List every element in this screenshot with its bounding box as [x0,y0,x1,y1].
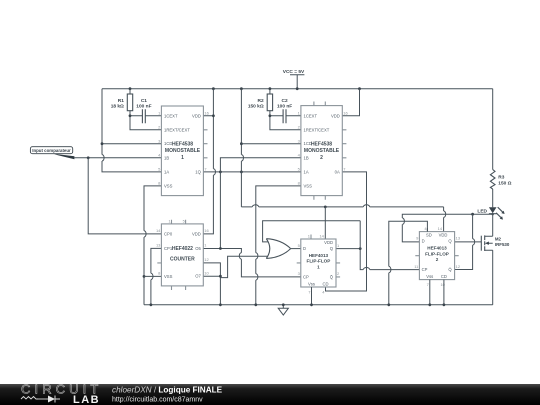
node R1/C1 junction [129,114,132,117]
wire FF2 CD to ground [443,280,445,305]
svg-text:4: 4 [158,153,161,158]
IC U2 HEF4538 MONOSTABLE 2 [298,102,349,200]
svg-text:VDD: VDD [439,233,448,238]
wire Q down to FF2 CP (hops drawn on crossing wires) [360,221,419,270]
svg-text:5: 5 [298,243,301,248]
wire 1CD of U1 to VCC drop [102,143,161,145]
wire FF VDD line (hops up over two verticals) [241,205,443,207]
svg-text:18 kΩ: 18 kΩ [111,104,124,110]
svg-text:3: 3 [298,139,301,144]
wire counter CP1 to ground [151,248,162,304]
svg-text:1: 1 [181,155,184,161]
svg-text:VDD: VDD [324,240,333,245]
svg-text:1: 1 [158,111,161,116]
svg-text:14: 14 [319,234,324,239]
svg-text:M2: M2 [495,236,502,241]
wire FF2 Q to M2 gate [455,241,482,243]
svg-text:1B: 1B [304,155,309,160]
svg-text:12: 12 [456,264,461,269]
svg-text:2: 2 [320,155,323,161]
wire FF1 pin14 stub up to VDD line [324,207,326,239]
wire O7 to OR gate bottom input [221,256,268,277]
svg-text:16: 16 [343,111,348,116]
wire left VCC drop to 1CD/1A (with hop over 1B wire) [102,89,161,172]
svg-text:VSS: VSS [164,183,173,188]
wire FF2 D / VDD node to LED cathode (vertical hops over SD wire) [402,214,492,242]
svg-text:FLIP-FLOP: FLIP-FLOP [425,251,449,256]
diode LED [477,189,504,220]
svg-text:R3: R3 [498,175,504,181]
svg-text:7: 7 [427,282,430,287]
svg-text:100 nF: 100 nF [136,104,151,110]
svg-text:7: 7 [343,167,346,172]
svg-text:D: D [303,246,306,251]
svg-text:IRF530: IRF530 [495,242,510,247]
wire ground rail [144,304,493,306]
svg-text:1REXT/CEXT: 1REXT/CEXT [304,127,330,132]
svg-text:11: 11 [414,264,419,269]
node O7 junction [219,275,222,278]
svg-text:8: 8 [158,181,161,186]
svg-text:3: 3 [298,271,301,276]
svg-text:0A: 0A [335,169,340,174]
wire FF1 Q feedback to OR top input [263,221,361,242]
svg-text:Vss: Vss [308,282,315,287]
svg-text:HEF4013: HEF4013 [309,253,329,258]
node VCC stem junction [296,87,299,90]
wire VDD rail U1 to counter (with hop over 1Q wire) [203,89,215,234]
CircuitLab logo [21,382,102,405]
svg-text:9: 9 [416,236,419,241]
wire LED cathode to M2 drain [492,214,494,237]
svg-text:VCC = 5V: VCC = 5V [283,69,305,75]
svg-text:2: 2 [436,257,439,262]
wire counter pin13 to FF1 CP (hop down past OR input wire) [203,249,300,277]
svg-text:R2: R2 [258,98,264,104]
node D line junctions [471,213,474,216]
IC U3 HEF4022 COUNTER [156,220,210,290]
OR gate U4 [266,239,290,259]
svg-text:150 kΩ: 150 kΩ [248,104,264,110]
svg-text:VDD: VDD [331,113,340,118]
svg-text:CD: CD [441,274,447,279]
transistor M2 IRF530 [481,235,510,251]
node 1CD junction [101,142,104,145]
svg-text:2: 2 [158,125,161,130]
svg-text:1: 1 [298,111,301,116]
footer bar [0,384,540,405]
svg-text:Input comparateur: Input comparateur [32,148,71,153]
svg-text:CP: CP [303,274,309,279]
svg-text:150 Ω: 150 Ω [498,180,511,186]
svg-text:VSS: VSS [164,274,173,279]
svg-text:16: 16 [204,228,209,233]
wire VCC bus [102,88,493,90]
svg-text:HEF4013: HEF4013 [427,246,447,251]
svg-text:chloerDXN / Logique FINALE: chloerDXN / Logique FINALE [112,386,223,395]
wire input down to counter CP0 [88,158,161,234]
svg-text:1REXT/CEXT: 1REXT/CEXT [164,127,190,132]
svg-text:1: 1 [168,220,170,224]
svg-text:1: 1 [204,243,207,248]
resistor R3 [490,89,511,189]
svg-text:D: D [422,239,425,244]
svg-text:5: 5 [298,167,301,172]
svg-text:5: 5 [183,220,185,224]
capacitor C1 [130,98,161,123]
svg-text:1Q: 1Q [195,169,201,174]
wire U2 VSS down to ground (hops over pin13 and CP wires) [256,186,301,305]
svg-text:CP: CP [422,267,428,272]
svg-text:14: 14 [438,226,443,231]
svg-text:Vss: Vss [426,274,433,279]
node Q junction [359,247,362,250]
wire VCC drop to U2 1CD and FF VDD line (hops over 1B wire) [241,89,243,207]
svg-text:R1: R1 [118,98,124,104]
svg-text:10: 10 [440,282,445,287]
svg-text:MONOSTABLE: MONOSTABLE [304,148,340,154]
svg-text:LAB: LAB [73,394,100,405]
node pin13/1Q junction [219,247,222,250]
node input junction [87,156,90,159]
svg-text:1: 1 [317,265,320,270]
svg-text:2: 2 [298,125,301,130]
wire FF2 SD to ground rail (hops over CP wire) [389,221,428,305]
power flag VCC = 5V [283,69,305,89]
svg-text:3: 3 [158,139,161,144]
wire FF1 Vss stub to ground [311,287,313,305]
svg-text:1: 1 [337,243,340,248]
input flag Input comparateur [30,147,74,160]
wire counter VSS [144,275,161,277]
capacitor C2 [270,98,301,123]
svg-text:FLIP-FLOP: FLIP-FLOP [307,259,331,264]
node VSS net junction [143,275,146,278]
svg-text:1A: 1A [164,169,169,174]
svg-text:O5: O5 [195,246,201,251]
svg-text:1CEXT: 1CEXT [164,113,178,118]
svg-text:8: 8 [298,181,301,186]
svg-text:1A: 1A [304,169,309,174]
svg-text:O7: O7 [195,274,201,279]
svg-text:13: 13 [156,243,161,248]
svg-text:C2: C2 [282,98,288,104]
svg-text:5: 5 [158,167,161,172]
wire U1 VSS down to ground rail [144,186,161,305]
svg-text:VSS: VSS [304,183,313,188]
wire FF1 Q [336,248,360,250]
IC U1 HEF4538 MONOSTABLE 1 [158,106,209,196]
svg-text:1B: 1B [164,155,169,160]
svg-text:13: 13 [456,236,461,241]
svg-text:SD: SD [426,233,432,238]
node R2/C2 junction [269,114,272,117]
svg-text:12: 12 [204,257,209,262]
wire FF2 SD stub [426,228,428,232]
wire M2 source to ground rail [492,250,494,305]
IC U6 HEF4013 FLIP-FLOP 2 [414,226,461,287]
resistor R2 [248,89,301,130]
wire U2 0A down to FF1 CD [326,172,367,291]
svg-text:VDD: VDD [192,231,201,236]
svg-text:7: 7 [204,167,207,172]
wire FF2 Vss to ground [429,280,431,305]
wire U1 1Q to U2 1A [203,171,301,173]
wire counter O7 [203,275,220,277]
node FF1 pin14 junction [324,206,327,209]
svg-text:14: 14 [156,228,161,233]
svg-text:8: 8 [158,270,161,275]
wire 1Q up to U2 1B [220,158,301,172]
wire input to 1B of U1 [74,157,161,159]
wire FF2 Qbar up to D line (hops over Q wire) [455,214,475,269]
svg-text:16: 16 [204,111,209,116]
svg-text:CP0: CP0 [164,231,173,236]
svg-text:4: 4 [298,153,301,158]
wire U2 1CD [241,143,301,145]
wire counter pin12 down to ground [203,263,220,305]
svg-text:1: 1 [308,234,311,239]
svg-text:MONOSTABLE: MONOSTABLE [165,148,201,154]
wire U2 VDD up to bus [342,89,359,116]
IC U5 HEF4013 FLIP-FLOP 1 [297,234,340,295]
svg-text:LED: LED [477,208,487,214]
node U2 1CD junction [240,142,243,145]
svg-text:COUNTER: COUNTER [170,256,195,262]
svg-text:HEF4538: HEF4538 [311,141,332,147]
wire VDD line down to FF2 pin14 (hops over D line) [444,207,446,232]
svg-text:7: 7 [308,289,311,294]
resistor R1 [111,89,162,130]
svg-text:4: 4 [322,289,325,294]
svg-text:10: 10 [204,270,209,275]
svg-text:100 nF: 100 nF [277,104,292,110]
wire 1Q down to counter pin13 wire [219,172,221,249]
node bus junctions [129,87,132,90]
svg-text:http://circuitlab.com/c87amnv: http://circuitlab.com/c87amnv [112,397,203,404]
svg-text:C1: C1 [141,98,147,104]
node U1 VDD junction [212,114,215,117]
svg-text:2: 2 [337,271,340,276]
svg-text:VDD: VDD [192,113,201,118]
svg-text:1CEXT: 1CEXT [304,113,318,118]
svg-text:HEF4538: HEF4538 [172,141,193,147]
svg-text:HEF4022: HEF4022 [172,246,193,252]
ground symbol [278,305,288,315]
svg-text:CD: CD [322,282,328,287]
node 1Q junctions [219,171,222,174]
wire OR output to FF1 D [291,248,301,250]
